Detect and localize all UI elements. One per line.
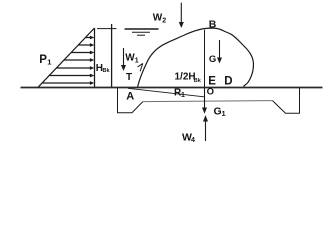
- svg-text:D: D: [224, 76, 232, 88]
- svg-text:G: G: [209, 54, 216, 65]
- svg-text:W: W: [125, 53, 135, 64]
- svg-text:G: G: [214, 106, 222, 118]
- svg-text:1: 1: [222, 109, 226, 118]
- svg-text:A: A: [126, 91, 134, 103]
- svg-text:Bk: Bk: [194, 78, 202, 84]
- svg-text:O: O: [207, 86, 214, 97]
- svg-text:P: P: [39, 54, 47, 66]
- svg-text:W: W: [153, 13, 163, 24]
- svg-text:1/2H: 1/2H: [175, 72, 196, 83]
- svg-text:Bk: Bk: [103, 68, 111, 74]
- svg-text:B: B: [209, 18, 217, 30]
- svg-text:4: 4: [191, 137, 195, 144]
- svg-text:T: T: [126, 72, 132, 83]
- svg-text:1: 1: [181, 92, 185, 99]
- svg-text:1: 1: [135, 58, 139, 65]
- svg-text:2: 2: [162, 18, 166, 25]
- svg-text:1: 1: [47, 58, 51, 67]
